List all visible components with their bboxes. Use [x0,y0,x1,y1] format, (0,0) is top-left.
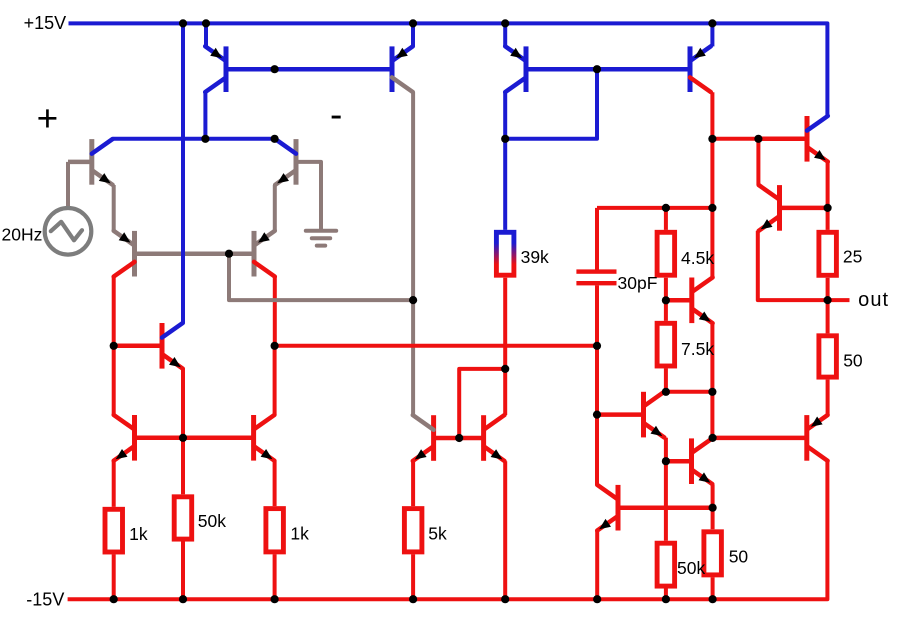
junction node (828,208) [824,204,832,212]
transistor Q3 (PNP cascode) [114,231,137,277]
wire -15V rail and Q20 collector [68,461,828,599]
wire input mirror node y139 [113,137,274,141]
wire Q16 emitter down [664,438,668,462]
wire source lead [66,162,70,207]
transistor Q6 (NPN mirror) [114,415,137,461]
junction node (229,254) [225,250,233,258]
transistor Q2 (NPN input -) [275,139,298,185]
wire 39k top lead [503,139,507,230]
wire Q9 collector gray vertical to node A [411,92,415,415]
wire node B horizontal y346 [275,344,597,348]
svg-text:out: out [858,289,889,311]
transistor Q18 (NPN bias) [759,185,828,231]
wire Q5 base lead stub [114,344,142,349]
svg-text:30pF: 30pF [618,273,658,293]
transistor Q10 (NPN mirror) [413,415,459,461]
junction node (413,599) [409,595,417,603]
junction node (828,300) [824,296,832,304]
resistor R6 4.5k [657,232,675,275]
wire Q5 emitter down [181,369,185,438]
junction node (713,438) [709,434,717,442]
resistor R8 25 [819,232,837,275]
wire Q18 emitter loop to out [758,231,828,300]
resistor R1 1k [105,509,123,552]
transistor Q19 (NPN) [597,485,640,531]
wire 1k-2 bottom lead [273,554,277,599]
wire Q6 collector vertical [112,346,116,415]
junction node (666,300) [662,296,670,304]
wire Q8/Q9 base line [226,67,392,72]
wire 50ohm bottom to Q20 emitter [826,380,830,415]
wire Q12/Q13 base line [526,67,690,72]
wire Q20 base line [713,436,807,441]
junction node (505,23) [501,19,509,27]
junction node (505,599) [501,595,509,603]
transistor Q8 (PNP mirror diode) [205,46,228,92]
wire Q10 emitter to 5k [411,461,415,506]
svg-text:39k: 39k [521,247,549,267]
wire 4.5k bottom to Q15 base node [664,278,668,321]
wire 7.5k bottom lead [664,369,668,392]
wire 25ohm bottom to out node [826,278,830,300]
transistor Q20 (PNP output) [804,415,827,461]
junction node (597,599) [593,595,601,603]
wire 5k bottom lead [411,554,415,599]
junction node (413,300) [409,296,417,304]
wire Q17 emitter down [711,485,715,530]
resistor R10 50k [657,543,675,586]
wire x712 node down [710,392,714,438]
resistor R3 1k [266,509,284,552]
junction node (713,508) [709,504,717,512]
junction node (505,369) [501,365,509,373]
svg-text:50k: 50k [677,558,705,578]
wire Q6 emitter to 1k [112,461,116,507]
transistor Q11 (NPN mirror diode) [459,415,504,461]
transistor Q9 (PNP mirror) [390,46,413,92]
junction node (183,23) [179,19,187,27]
capacitor C1 30pF [576,269,616,285]
junction node (597,346) [593,342,601,350]
junction node (712,139) [708,135,716,143]
wire Q5 collector tail from +15 rail [181,23,185,323]
wire 30pF bottom lead [595,285,599,345]
wire Q11 emitter down [503,461,507,599]
junction node (114,346) [110,342,118,350]
wire 50ohm top lead [826,300,830,333]
svg-text:7.5k: 7.5k [681,339,714,359]
junction node (758,139) [754,135,762,143]
svg-text:20Hz: 20Hz [2,225,43,245]
wire mirror base link [459,369,505,438]
junction node (275,599) [271,595,279,603]
junction node (183,599) [179,595,187,603]
wire Q7 collector vertical [273,346,277,415]
svg-text:+: + [37,98,59,139]
resistor R7 7.5k [657,323,675,366]
wire Q2 emitter down [273,185,277,231]
wire compensation node vertical x712 [710,139,714,277]
wire Q18 collector vertical [756,139,760,185]
resistor R4 5k [404,509,422,552]
wire 50-2 bottom lead [711,577,715,599]
wire Q4 collector down [273,277,277,346]
wire Q7 emitter to 1k [273,461,277,506]
transistor Q14 (NPN output) [758,116,827,162]
svg-text:1k: 1k [290,523,309,543]
wire 50k bottom lead [181,542,185,600]
wire Q15 emitter down x712 [710,323,714,392]
wire Q13 emitter from rail [710,23,714,46]
svg-text:5k: 5k [428,523,447,543]
junction node (114,599) [110,595,118,603]
junction node (597,415) [593,411,601,419]
resistor R11 50 [704,532,722,575]
wire Q16 collector node y392 [666,390,713,394]
junction node (205,139) [201,135,209,143]
wire Q3/Q4 base node down and right to node A [229,254,413,300]
transistor Q1 (NPN input +) [68,139,113,185]
svg-text:50: 50 [843,351,863,371]
wire Q6/Q7 base line [135,436,254,441]
transistor Q7 (NPN mirror) [230,415,274,461]
junction node (206,23) [202,19,210,27]
wire Q2 base to ground stem [296,162,321,230]
wire Q8 collector down to mirror node [203,92,207,139]
wire Q9 emitter from rail [411,23,415,46]
wire 30pF top lead [595,208,599,270]
wire Q8 emitter from rail [204,23,208,46]
transistor Q13 (PNP mirror) [688,46,711,92]
wire Q12 emitter from rail [503,23,507,46]
wire Q14 emitter to node [826,162,830,208]
wire Q3 collector down [112,277,116,346]
wire Q1 emitter down [112,185,116,231]
resistor R5 39k [496,232,514,275]
wire out stub [828,298,850,302]
transistor Q12 (PNP mirror diode) [505,46,528,92]
junction node (712,23) [708,19,716,27]
junction node (505,139) [501,135,509,143]
svg-text:25: 25 [843,247,862,267]
junction node (713,599) [709,595,717,603]
resistor R2 50k [174,497,192,539]
svg-text:50k: 50k [198,511,226,531]
transistor Q16 (NPN gain) [597,392,664,438]
junction node (459,438) [455,434,463,442]
junction node (666,208) [662,204,670,212]
AC source V1 20Hz [45,208,92,255]
wire 30pF top node y208 [597,206,712,210]
wire 25ohm top lead [826,208,830,230]
wire Q14 base node y139 [712,137,758,141]
wire 4.5k top lead [664,208,668,230]
junction node (666,599) [662,595,670,603]
svg-text:4.5k: 4.5k [681,248,714,268]
ground [306,231,336,246]
junction node (413,23) [409,19,417,27]
wire Q3 base line [135,251,230,256]
junction node (666,392) [662,388,670,396]
wire 50k-2 top lead [664,461,668,541]
junction node (183,438) [179,434,187,442]
wire 50k-2 bottom lead [664,589,668,600]
svg-text:-15V: -15V [26,590,64,610]
transistor Q4 (PNP cascode) [229,231,275,277]
svg-text:-: - [330,94,342,135]
junction node (666,461) [662,457,670,465]
svg-text:+15V: +15V [24,13,67,33]
junction node (712,392) [708,388,716,396]
wire +15V rail [69,23,828,115]
wire Q13 collector down [710,92,714,139]
wire Q19 base line [618,505,713,510]
junction node (275,69) [271,65,279,73]
resistor R9 50 [819,336,837,377]
svg-text:1k: 1k [129,524,148,544]
transistor Q15 (NPN vbe multiplier) [666,277,713,323]
junction node (275,346) [271,342,279,350]
wire Q11 collector up [503,369,507,415]
wire 1k bottom lead [112,555,116,600]
transistor Q17 (NPN gain) [666,438,712,484]
junction node (597,69) [593,65,601,73]
wire Q12 base-collector loop [505,69,597,139]
wire 39k bottom lead [503,278,507,369]
transistor Q5 (NPN mirror) [114,323,183,369]
svg-text:50: 50 [729,547,749,567]
wire x597 vertical node B to Q19 [595,346,599,485]
junction node (275,139) [271,135,279,143]
wire 50k top lead [181,438,185,495]
wire Q19 emitter down [595,531,599,599]
junction node (712,208) [708,204,716,212]
